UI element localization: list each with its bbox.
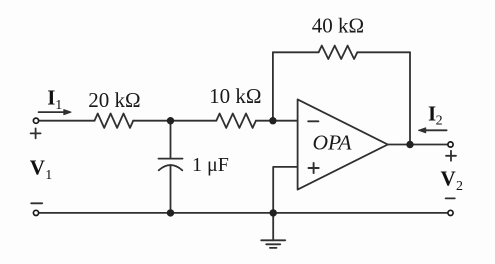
label V1 xyxy=(30,156,53,183)
node A junction dot xyxy=(167,117,174,124)
svg-text:OPA: OPA xyxy=(313,131,353,155)
op-amp U1 triangle xyxy=(298,99,388,189)
svg-text:2: 2 xyxy=(456,179,463,194)
terminal V2- open circle xyxy=(448,210,453,215)
wire: non-inverting input to ground node xyxy=(273,167,297,213)
svg-text:1 μF: 1 μF xyxy=(192,154,229,176)
wire: node A to R2 xyxy=(171,120,217,122)
value label 20 kOhm xyxy=(88,88,140,112)
wire: feedback top right segment xyxy=(357,51,410,53)
label I2 xyxy=(428,101,443,128)
op-amp inverting input minus sign xyxy=(308,120,318,122)
svg-text:20 kΩ: 20 kΩ xyxy=(88,88,140,112)
current arrow I2 xyxy=(419,128,447,133)
capacitor C1 bottom lead wire xyxy=(170,165,172,213)
wire: feedback left vertical leg xyxy=(272,52,274,120)
capacitor C1 top lead wire xyxy=(170,121,172,159)
value label 10 kOhm xyxy=(209,84,261,108)
resistor R2 10 kOhm zigzag xyxy=(216,114,256,128)
plus sign at V1 terminal xyxy=(31,128,41,138)
svg-text:V: V xyxy=(441,167,456,191)
value label 1 uF xyxy=(192,154,229,176)
current arrow I1 xyxy=(39,110,71,115)
terminal V1- open circle xyxy=(33,210,38,215)
svg-text:40 kΩ: 40 kΩ xyxy=(312,14,364,38)
svg-text:V: V xyxy=(30,156,45,180)
svg-text:1: 1 xyxy=(45,168,52,183)
capacitor C1 plates xyxy=(159,159,183,171)
wire: op-amp output to V2+ terminal xyxy=(388,144,448,146)
resistor R1 20 kOhm zigzag xyxy=(95,114,134,128)
wire: feedback right vertical leg to output node xyxy=(409,52,411,144)
label I1 xyxy=(47,86,62,113)
op-amp name label OPA xyxy=(313,131,353,155)
node B junction dot (inverting input / feedback tap) xyxy=(269,117,276,124)
ground symbol xyxy=(261,213,285,248)
wire: R1 to node A xyxy=(133,120,170,122)
label V2 xyxy=(441,167,464,194)
terminal V1+ open circle xyxy=(33,118,38,123)
minus sign at V1 terminal xyxy=(31,202,42,204)
wire: feedback top left segment xyxy=(273,51,319,53)
output node junction dot xyxy=(406,141,413,148)
plus sign at V2 terminal xyxy=(446,151,456,161)
wire: bottom rail xyxy=(39,212,447,214)
resistor R3 40 kOhm zigzag xyxy=(319,46,358,59)
junction dot: capacitor on bottom rail xyxy=(167,209,174,216)
svg-text:1: 1 xyxy=(55,98,62,113)
wire: node B to op-amp inverting input xyxy=(273,120,298,122)
terminal V2+ open circle xyxy=(448,142,453,147)
wire: R2 to node B xyxy=(256,120,273,122)
value label 40 kOhm xyxy=(312,14,364,38)
wire: V1+ terminal to R1 xyxy=(39,120,94,122)
junction dot: ground on bottom rail xyxy=(270,209,277,216)
minus sign at V2 terminal xyxy=(446,197,455,199)
op-amp non-inverting input plus sign xyxy=(309,163,319,173)
svg-text:2: 2 xyxy=(436,113,443,128)
svg-text:10 kΩ: 10 kΩ xyxy=(209,84,261,108)
